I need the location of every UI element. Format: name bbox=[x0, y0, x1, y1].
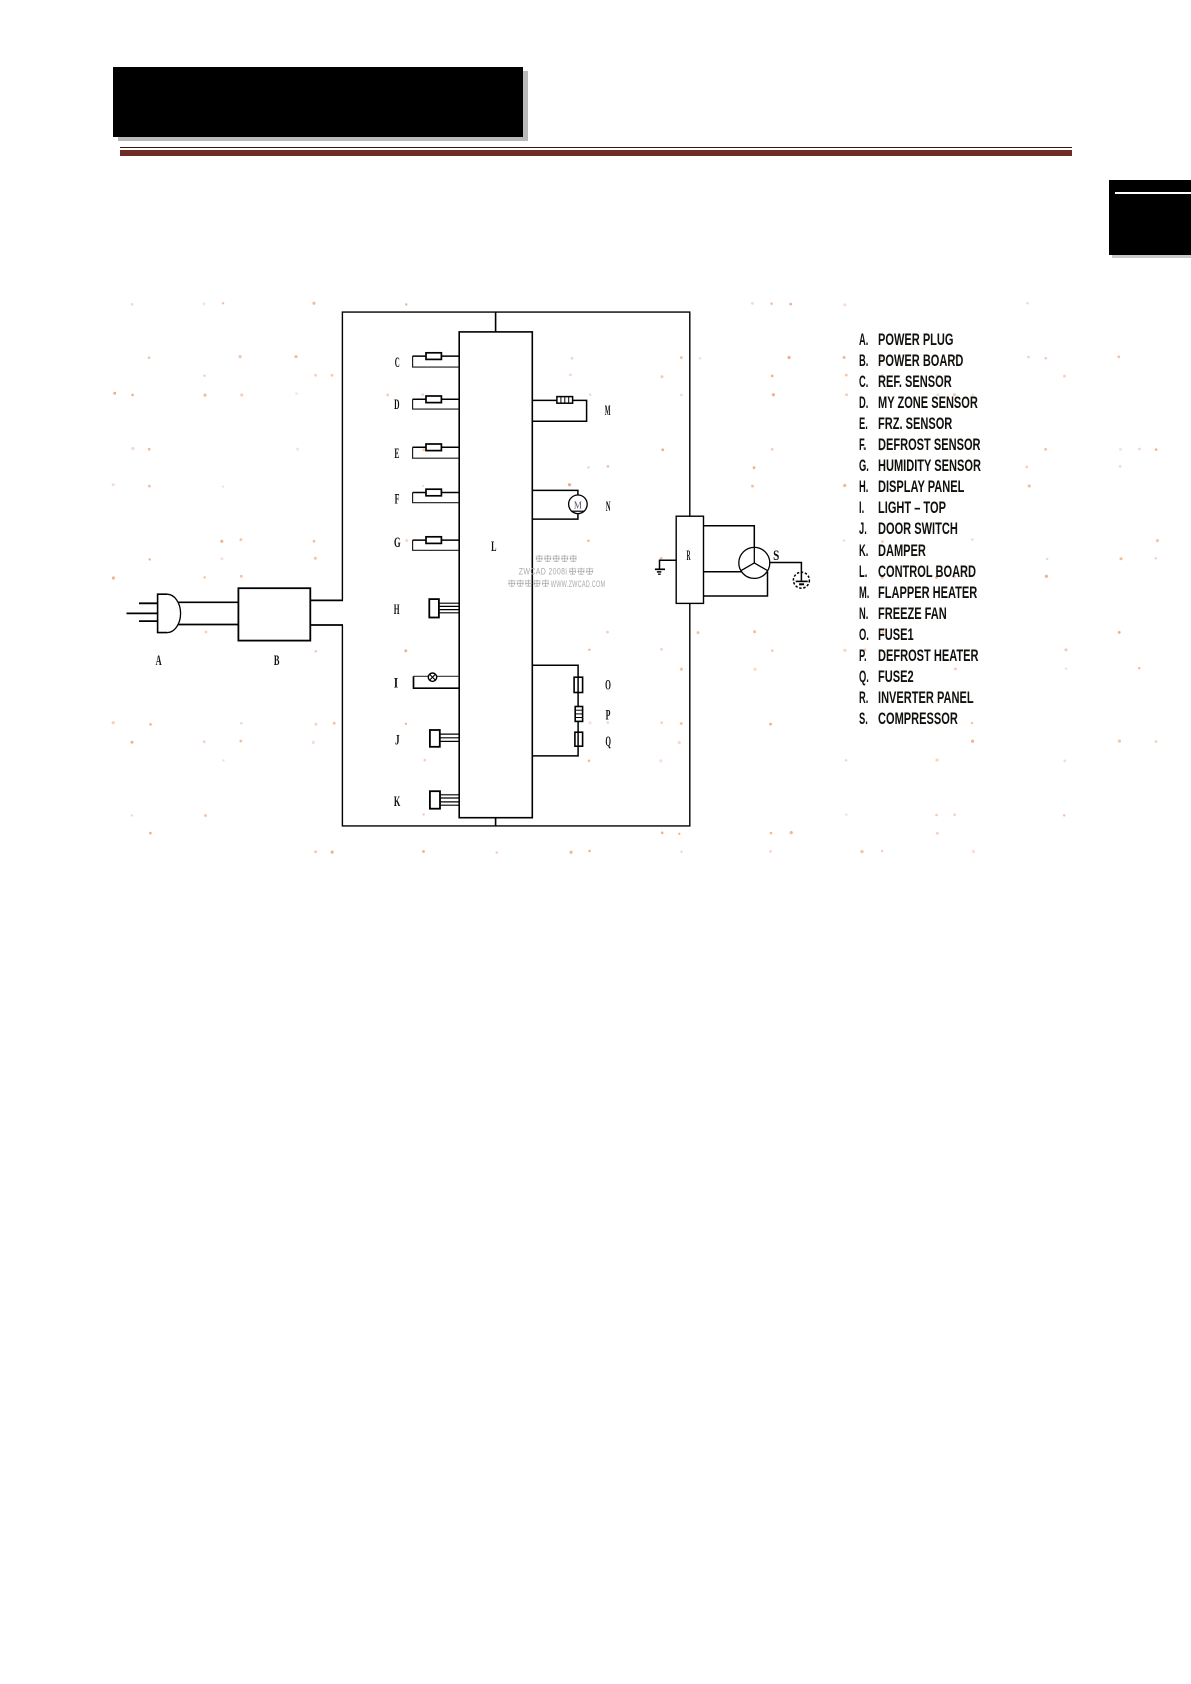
svg-text:E: E bbox=[394, 446, 399, 462]
svg-text:G: G bbox=[394, 535, 401, 551]
svg-text:Q: Q bbox=[605, 734, 611, 750]
svg-text:P: P bbox=[606, 707, 611, 723]
svg-text:M: M bbox=[574, 500, 583, 511]
svg-text:I: I bbox=[394, 676, 399, 692]
svg-text:M: M bbox=[605, 403, 611, 419]
svg-text:R: R bbox=[687, 548, 691, 564]
svg-text:H: H bbox=[394, 602, 400, 618]
svg-text:F: F bbox=[395, 492, 400, 508]
svg-text:K: K bbox=[394, 794, 401, 810]
svg-text:ZWCAD 2008i: ZWCAD 2008i bbox=[519, 567, 568, 577]
svg-text:L: L bbox=[491, 539, 496, 555]
svg-text:A: A bbox=[156, 653, 162, 669]
svg-text:D: D bbox=[394, 397, 399, 413]
svg-text:J: J bbox=[395, 733, 400, 749]
svg-text:S: S bbox=[773, 548, 779, 564]
svg-text:C: C bbox=[395, 355, 400, 371]
svg-text:O: O bbox=[605, 678, 611, 694]
svg-text:WWW.ZWCAD.COM: WWW.ZWCAD.COM bbox=[551, 579, 606, 589]
svg-text:B: B bbox=[274, 653, 280, 669]
svg-text:N: N bbox=[606, 499, 611, 515]
